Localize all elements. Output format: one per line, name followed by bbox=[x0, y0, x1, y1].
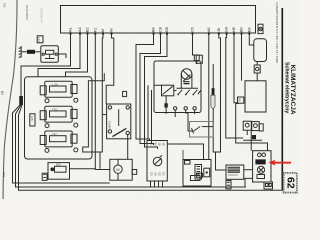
wire pin B8 bundle bbox=[136, 36, 154, 141]
ECU pin labels and stubs bbox=[71, 33, 250, 36]
fuse/relay panel P1 outer bbox=[25, 77, 93, 159]
pressure switch boxes bbox=[243, 121, 251, 130]
label box above S1 bbox=[123, 91, 127, 96]
panel label box bbox=[30, 114, 35, 126]
resistor pack box RP1 bbox=[183, 160, 211, 187]
paper noise overlay bbox=[0, 0, 1, 1]
wire feed to fuse bbox=[21, 51, 27, 53]
left-of-A1 vertical wires bbox=[148, 85, 152, 143]
component 829 box bottom-left bbox=[48, 163, 70, 180]
label box right of M2 bbox=[132, 170, 137, 175]
label box on wire C6 bbox=[194, 55, 199, 61]
red pointer arrow bbox=[268, 160, 291, 166]
wire pin C8 bundle bbox=[140, 36, 161, 145]
wire from B9 bottom down to compressor bbox=[236, 104, 268, 151]
wire from fan terminal to thermal switch bbox=[186, 110, 194, 131]
thermal switch area box bbox=[190, 122, 214, 138]
big right box B9 bbox=[245, 81, 266, 112]
wire pressure switch to compressor bbox=[250, 131, 252, 151]
branch wire into S1 left bbox=[102, 114, 106, 116]
blower assembly box A1 bbox=[154, 61, 201, 113]
relay K1 coil bbox=[46, 50, 54, 54]
wire pin A6 to resistor pack bbox=[208, 36, 210, 160]
relay row 3 bbox=[40, 131, 78, 152]
compressor terminals bbox=[258, 153, 262, 157]
ECU control unit U1 box bbox=[61, 6, 256, 34]
wire pin H6 to box B9 bbox=[234, 36, 238, 103]
relay K1 pins bbox=[42, 53, 44, 55]
switch S1 lever bbox=[113, 128, 127, 136]
capacitor C1 bbox=[184, 82, 190, 84]
X1 bottom stubs bbox=[151, 181, 163, 187]
wire relay K1 to panel bbox=[58, 54, 66, 58]
rounded box R (top right) bbox=[254, 39, 267, 62]
wire 829 to motor M2 bbox=[70, 168, 96, 170]
relay row 2 bbox=[40, 106, 78, 127]
wire pin W to switch S1 bbox=[106, 36, 114, 104]
sensor box below R bbox=[254, 65, 260, 73]
wire into resistor pack left bbox=[182, 150, 184, 160]
relay row 1 bbox=[40, 81, 78, 102]
wire stripes box to compressor bbox=[244, 169, 253, 171]
clutch coil (dark) bbox=[255, 159, 265, 164]
temperature sensor (teardrop) bbox=[212, 64, 214, 88]
wire pin F2 to motor M2 bbox=[95, 36, 110, 170]
wires below A1 terminals bbox=[166, 108, 195, 117]
RP1 label box bbox=[185, 161, 191, 165]
wire pin J6 to stripes box bbox=[216, 36, 227, 170]
wire pin C6 to blower box bbox=[193, 36, 197, 64]
wire fuse to relay K1 bbox=[35, 51, 41, 53]
fan motor M1 bbox=[181, 69, 192, 80]
compressor bottom element bbox=[257, 175, 265, 179]
blower switch S1 box bbox=[107, 104, 131, 139]
tiny page-corner text top-left bbox=[3, 3, 7, 8]
small 2-pin connector bbox=[42, 173, 47, 180]
wire pin G6 to pressure switches bbox=[226, 36, 243, 138]
thermal switch TS1 bbox=[192, 127, 201, 134]
label box left of B9 bbox=[238, 97, 244, 103]
rheostat bbox=[162, 85, 174, 96]
left page border line bbox=[3, 0, 17, 199]
dark mark below pressure switches bbox=[252, 135, 256, 139]
fan selector contacts bbox=[177, 87, 199, 89]
feed symbol at border bbox=[19, 46, 22, 58]
motor M2 circle bbox=[114, 165, 122, 173]
tiny page-corner text bottom-left bbox=[2, 172, 6, 177]
switch S1 to M2 wires bbox=[127, 135, 129, 160]
tall connector box X1 bbox=[147, 141, 167, 182]
wire X1 right to resistor pack bbox=[167, 144, 203, 160]
compressor assembly box bbox=[253, 151, 271, 182]
wire pin E6 to rounded box R bbox=[249, 36, 254, 45]
wire pin D8 bundle bbox=[145, 36, 168, 149]
wires inside A1 bbox=[154, 85, 177, 103]
wire pin M to panel right bbox=[100, 36, 103, 152]
relay K1 (131) box bbox=[41, 46, 59, 62]
small box below stripes box bbox=[226, 180, 231, 188]
label 131 bbox=[37, 36, 43, 43]
connector blob on left feed wire bbox=[19, 96, 23, 105]
wire pin A1 to left bus bbox=[21, 36, 71, 96]
wire pin B6 to right box top bbox=[241, 36, 243, 81]
small box bottom right of compressor bbox=[264, 182, 273, 189]
sensor box right of ECU bbox=[258, 24, 263, 33]
sidebar vertical rule bbox=[281, 8, 283, 191]
wire panel-right down to M2 feed bbox=[83, 73, 105, 169]
wire pin A3 to fuse panel bbox=[38, 36, 80, 77]
motor M2 box (bottom middle) bbox=[110, 159, 132, 180]
stripes connector box bbox=[226, 165, 244, 179]
clock symbol in X1 bbox=[153, 157, 162, 166]
wire compressor bottom to bus bbox=[245, 178, 253, 187]
pin contact dots on ECU bottom edge bbox=[70, 32, 251, 35]
wire from teardrop down bbox=[213, 108, 215, 152]
page tab 62 bbox=[284, 173, 297, 193]
compressor rotor circle bbox=[257, 166, 264, 173]
connector tab on top of A1 bbox=[196, 55, 202, 63]
wire fan-out to bottom-left buses bbox=[13, 105, 110, 183]
fuse F1 (solid) bbox=[27, 50, 35, 54]
wire pin B2 to fuse panel bbox=[66, 36, 88, 77]
blower bottom terminals bbox=[164, 103, 167, 107]
RP1 bottom connector boxes bbox=[191, 176, 201, 181]
